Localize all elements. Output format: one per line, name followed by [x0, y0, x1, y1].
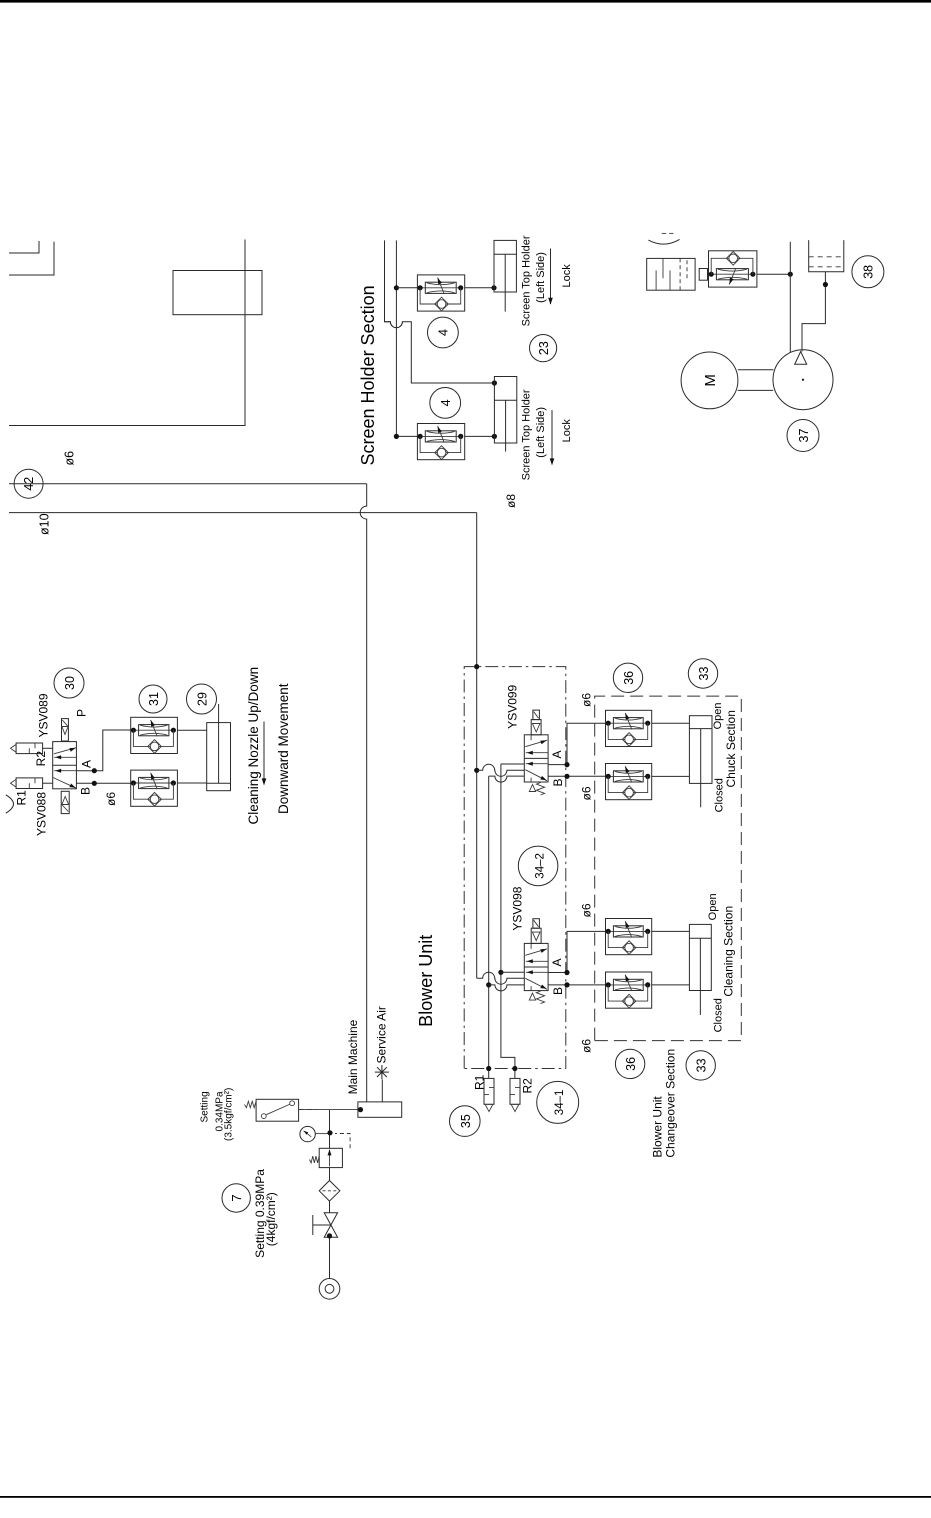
svg-text:38: 38: [862, 265, 876, 279]
svg-text:31: 31: [147, 692, 161, 706]
svg-text:Service Air: Service Air: [375, 1006, 389, 1063]
svg-text:Changeover Section: Changeover Section: [664, 1049, 678, 1158]
svg-text:Lock: Lock: [561, 419, 573, 443]
svg-text:ø6: ø6: [580, 903, 594, 917]
svg-text:P: P: [75, 709, 89, 717]
svg-text:Screen Holder Section: Screen Holder Section: [358, 285, 378, 465]
svg-text:ø6: ø6: [580, 693, 594, 707]
svg-text:Chuck Section: Chuck Section: [724, 710, 738, 787]
svg-text:Main Machine: Main Machine: [346, 1019, 360, 1094]
svg-text:ø6: ø6: [104, 792, 118, 806]
svg-text:33: 33: [697, 667, 711, 681]
svg-text:R2: R2: [34, 751, 48, 767]
svg-text:30: 30: [63, 676, 77, 690]
svg-text:A: A: [550, 958, 564, 966]
svg-text:Open: Open: [712, 702, 724, 729]
svg-text:(Left Side): (Left Side): [535, 407, 547, 458]
svg-text:36: 36: [624, 1057, 638, 1071]
svg-text:Screen Top Holder: Screen Top Holder: [521, 235, 533, 326]
svg-text:Cleaning Nozzle Up/Down: Cleaning Nozzle Up/Down: [246, 667, 261, 825]
svg-text:A: A: [550, 750, 564, 758]
svg-text:A: A: [80, 760, 94, 768]
svg-text:29: 29: [195, 692, 209, 706]
svg-text:Closed: Closed: [713, 998, 725, 1032]
svg-text:ø6: ø6: [63, 451, 77, 466]
svg-text:34–2: 34–2: [535, 853, 547, 879]
svg-text:Lock: Lock: [561, 264, 573, 288]
svg-text:Screen Top Holder: Screen Top Holder: [521, 389, 533, 480]
svg-text:YSV098: YSV098: [510, 886, 524, 930]
svg-text:34–1: 34–1: [554, 1090, 566, 1116]
svg-text:Blower Unit: Blower Unit: [416, 935, 436, 1027]
svg-text:23: 23: [537, 341, 551, 355]
svg-text:Downward Movement: Downward Movement: [276, 683, 291, 814]
svg-text:R1: R1: [473, 1074, 487, 1090]
svg-text:36: 36: [622, 671, 636, 685]
svg-text:YSV088: YSV088: [35, 792, 49, 836]
svg-text:R1: R1: [15, 790, 29, 806]
svg-text:4: 4: [437, 329, 451, 336]
svg-text:Setting: Setting: [199, 1091, 210, 1122]
svg-text:42: 42: [22, 477, 36, 491]
svg-text:B: B: [551, 778, 565, 786]
svg-text:33: 33: [695, 1058, 709, 1072]
svg-text:YSV089: YSV089: [37, 693, 51, 737]
svg-text:R2: R2: [521, 1078, 535, 1094]
svg-text:Cleaning Section: Cleaning Section: [722, 906, 736, 997]
svg-text:35: 35: [459, 1114, 473, 1128]
svg-text:4: 4: [439, 399, 453, 406]
svg-text:M: M: [702, 374, 719, 387]
svg-text:37: 37: [797, 429, 811, 443]
svg-text:ø6: ø6: [580, 1039, 594, 1053]
svg-text:(3.5kgf/cm²): (3.5kgf/cm²): [223, 1088, 234, 1141]
svg-text:(4kgf/cm²): (4kgf/cm²): [264, 1192, 278, 1246]
svg-text:B: B: [551, 987, 565, 995]
svg-text:ø10: ø10: [38, 513, 52, 535]
svg-text:ø6: ø6: [580, 786, 594, 800]
svg-text:ø8: ø8: [504, 494, 518, 508]
svg-text:YSV099: YSV099: [505, 684, 519, 728]
svg-text:Open: Open: [707, 893, 719, 920]
svg-text:(Left Side): (Left Side): [535, 252, 547, 303]
svg-text:B: B: [79, 787, 93, 795]
svg-text:Blower Unit: Blower Unit: [651, 1096, 665, 1158]
svg-text:7: 7: [229, 1194, 244, 1201]
